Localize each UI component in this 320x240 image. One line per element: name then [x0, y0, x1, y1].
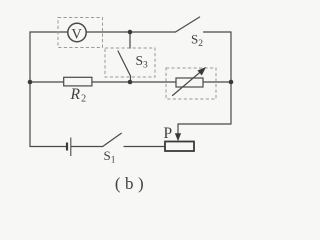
node middle-left junction: [28, 80, 33, 85]
switch S1: [103, 133, 122, 146]
switch S2: [176, 17, 200, 32]
rheostat arrow: [173, 71, 202, 96]
wire right vertical to P arrow: [178, 124, 231, 134]
wire bottom left to battery: [30, 146, 67, 148]
battery cell positive plate: [70, 138, 72, 157]
wire left vertical: [29, 32, 31, 147]
wire right vertical: [230, 32, 232, 124]
resistor R2: [64, 77, 92, 86]
node middle-right junction: [229, 80, 234, 85]
wire top right segment: [204, 31, 232, 33]
voltmeter dashed box: [58, 18, 103, 48]
potentiometer P box: [165, 142, 194, 152]
node top junction: [128, 30, 133, 35]
svg-text:V: V: [71, 27, 82, 43]
wire battery to S1: [71, 146, 103, 148]
potentiometer wiper arrow: [175, 133, 181, 141]
rheostat R: [176, 78, 203, 87]
wire top left horizontal: [30, 31, 176, 33]
svg-text:(b): (b): [115, 174, 148, 193]
wire S1 to P: [124, 146, 165, 148]
svg-text:P: P: [164, 125, 173, 142]
node middle junction: [128, 80, 133, 85]
switch S3: [118, 32, 131, 82]
voltmeter V: [68, 23, 86, 41]
rheostat dashed box: [166, 68, 216, 99]
wire middle horizontal: [30, 81, 231, 83]
battery cell negative plate: [66, 143, 68, 151]
S3 dashed box: [105, 48, 155, 77]
